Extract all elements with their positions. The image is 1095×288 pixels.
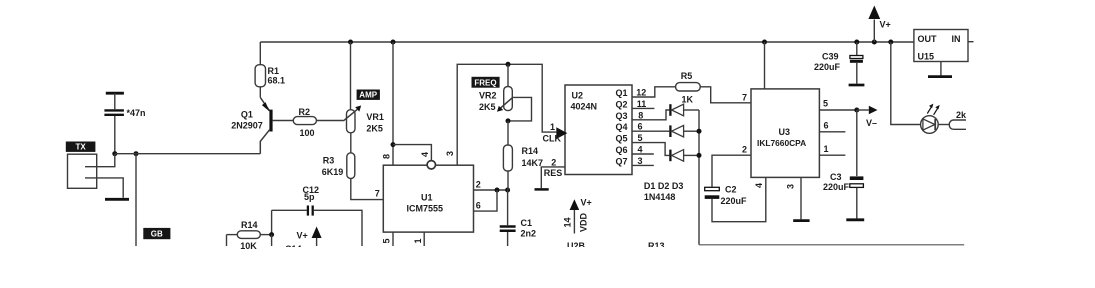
svg-text:10K: 10K — [240, 241, 257, 251]
svg-text:2n2: 2n2 — [521, 229, 537, 239]
svg-text:6: 6 — [476, 201, 481, 211]
svg-text:3: 3 — [445, 151, 455, 156]
svg-text:U3: U3 — [779, 127, 791, 137]
wire U3 top pin to rail — [764, 42, 766, 89]
svg-text:2K5: 2K5 — [479, 102, 496, 112]
svg-text:3: 3 — [785, 184, 795, 189]
resistor R1 68.1 — [255, 42, 285, 97]
label TX — [66, 142, 96, 152]
wire C2 to U3 pin 4 — [712, 177, 766, 221]
node D3 junction — [697, 153, 702, 158]
wire R14 node down (cut) — [271, 235, 273, 246]
wire VR2 to R14 — [507, 121, 509, 145]
node junction U3 top on rail — [762, 40, 767, 45]
node junction LED branch on rail — [888, 40, 893, 45]
wire V+ top rail — [260, 41, 914, 43]
svg-text:R14: R14 — [241, 220, 258, 230]
resistor R14 14K7 — [503, 145, 543, 190]
svg-text:7: 7 — [742, 92, 747, 102]
svg-text:R14: R14 — [522, 146, 539, 156]
svg-text:2: 2 — [551, 157, 556, 167]
svg-text:4: 4 — [754, 183, 764, 188]
wire transducer bottom plate to ground — [85, 178, 123, 198]
ground bar C39 — [849, 84, 865, 87]
svg-text:7: 7 — [375, 189, 380, 199]
svg-text:6: 6 — [638, 122, 643, 132]
svg-text:IKL7660CPA: IKL7660CPA — [757, 138, 806, 148]
svg-text:ICM7555: ICM7555 — [407, 204, 444, 214]
wire Q1 base to R2 — [273, 120, 294, 122]
wire U15 IN stub — [968, 41, 974, 43]
power flag V+ (near C12) — [297, 227, 322, 247]
svg-text:4: 4 — [420, 152, 430, 157]
svg-text:V+: V+ — [880, 20, 891, 30]
svg-text:C3: C3 — [830, 172, 842, 182]
label GB — [143, 228, 170, 239]
wire U2 Q4 to D2 — [632, 130, 669, 132]
svg-text:IN: IN — [952, 34, 961, 44]
ground bar U15 — [928, 75, 952, 78]
svg-text:C1: C1 — [521, 218, 533, 228]
svg-text:U15: U15 — [918, 51, 935, 61]
wire U1 pin 4 tie — [393, 145, 431, 161]
node pin5/C3 junction — [854, 108, 859, 113]
svg-text:1N4148: 1N4148 — [644, 192, 676, 202]
svg-text:V+: V+ — [581, 198, 592, 208]
svg-text:RES: RES — [544, 168, 563, 178]
svg-text:6: 6 — [824, 120, 829, 130]
resistor 2k (cut at edge) — [949, 120, 973, 129]
LED D? — [921, 104, 950, 134]
power flag V- arrow — [857, 106, 878, 128]
svg-text:VR2: VR2 — [479, 91, 497, 101]
svg-text:11: 11 — [637, 99, 647, 109]
capacitor C12 5p — [272, 185, 362, 246]
power flag V+ VDD pin14 U2 — [563, 198, 592, 234]
svg-text:R3: R3 — [323, 156, 335, 166]
node TX junction A — [112, 151, 117, 156]
svg-text:Q4: Q4 — [615, 122, 627, 132]
terminal bar above C47n — [106, 92, 124, 95]
pin bubble U1 pin4 — [427, 161, 435, 169]
wire rail to LED — [891, 42, 921, 125]
svg-text:2K5: 2K5 — [366, 124, 383, 134]
transistor Q1 2N2907 — [231, 97, 272, 153]
svg-text:*47n: *47n — [127, 108, 146, 118]
capacitor C3 220uF — [823, 110, 863, 218]
svg-text:AMP: AMP — [359, 91, 377, 100]
svg-text:8: 8 — [382, 154, 392, 159]
svg-text:Q5: Q5 — [615, 134, 627, 144]
capacitor C39 220uF — [814, 42, 863, 84]
wire C12 left down to R14 node — [271, 210, 273, 234]
diode D3 — [670, 150, 699, 162]
wire U1 pin 3 to U2 CLK — [457, 64, 556, 165]
svg-text:U1: U1 — [421, 193, 433, 203]
resistor R14 10K — [227, 220, 272, 251]
node VR2 loop junction — [506, 118, 511, 123]
svg-text:1: 1 — [824, 144, 829, 154]
counter U2 4024N box — [565, 85, 632, 175]
svg-text:D1 D2 D3: D1 D2 D3 — [644, 181, 684, 191]
svg-text:5: 5 — [823, 99, 828, 109]
potentiometer VR2 2K5 — [479, 64, 513, 112]
wire U1 pin 6 up to pin 2 — [474, 190, 498, 211]
potentiometer VR1 2K5 — [343, 42, 384, 153]
ground bar C3 — [846, 218, 864, 221]
wire C47n to TX node — [114, 116, 116, 154]
svg-text:V+: V+ — [297, 231, 308, 241]
partial cut text marks — [285, 244, 302, 254]
svg-text:220uF: 220uF — [721, 196, 748, 206]
node pin2/C1 junction — [505, 188, 510, 193]
resistor R2 100 — [293, 107, 343, 138]
svg-text:OUT: OUT — [918, 34, 938, 44]
svg-text:Q1: Q1 — [615, 88, 627, 98]
resistor R5 1K — [676, 71, 701, 105]
diode D1 — [670, 104, 699, 116]
svg-text:R2: R2 — [299, 107, 311, 117]
svg-text:U2: U2 — [572, 90, 584, 100]
svg-text:8: 8 — [638, 110, 643, 120]
wire bar to C47n — [114, 93, 116, 109]
wire U2 Q6 stub — [632, 153, 654, 155]
svg-text:12: 12 — [636, 88, 646, 98]
wire U3 pin 6 stub — [819, 131, 845, 133]
svg-text:14K7: 14K7 — [522, 158, 544, 168]
node VR2 tap on pin3 wire — [506, 62, 511, 67]
svg-text:C14: C14 — [285, 244, 302, 254]
wire U1 pin 5 down — [392, 232, 394, 246]
wire U2 Q1 to R5 — [632, 87, 676, 97]
label AMP — [357, 90, 380, 100]
svg-text:R13: R13 — [648, 241, 665, 251]
wire R14 left down (cut) — [226, 235, 228, 246]
svg-text:68.1: 68.1 — [268, 76, 286, 86]
svg-text:4: 4 — [638, 145, 643, 155]
wire U3 pin 2 to C2 — [712, 155, 751, 187]
svg-text:2k: 2k — [956, 110, 967, 120]
wire bottom rail (cut) — [699, 244, 964, 246]
svg-text:GB: GB — [151, 230, 163, 239]
svg-text:6K19: 6K19 — [322, 167, 344, 177]
resistor R3 6K19 — [322, 153, 384, 200]
node junction VR1 top on rail — [348, 40, 353, 45]
partial label R13 (cut) — [648, 241, 665, 251]
op-amp U1 ICM7555 box — [383, 165, 473, 232]
svg-text:1K: 1K — [682, 95, 694, 105]
node junction C39 on rail — [854, 40, 859, 45]
clock wedge U2 CLK — [556, 127, 567, 139]
svg-text:2: 2 — [476, 180, 481, 190]
node junction U1 pins 8/4 on rail — [391, 40, 396, 45]
svg-text:3: 3 — [638, 156, 643, 166]
converter U3 IKL7660CPA box — [751, 89, 819, 177]
regulator U15 OUT/IN box — [914, 30, 968, 62]
wire VR2 wiper loop — [508, 97, 532, 121]
svg-text:VR1: VR1 — [366, 112, 384, 122]
wire U15 ground — [940, 62, 942, 76]
svg-text:220uF: 220uF — [814, 62, 841, 72]
wire U3 pin 1 stub — [819, 154, 845, 156]
svg-text:C2: C2 — [725, 185, 737, 195]
svg-text:220uF: 220uF — [823, 182, 850, 192]
svg-text:Q2: Q2 — [615, 99, 627, 109]
node D2 junction — [697, 129, 702, 134]
wire U2 RES to ground — [541, 167, 565, 188]
node pin2/pin6 junction — [495, 188, 500, 193]
svg-text:Q7: Q7 — [615, 156, 627, 166]
node TX junction B — [134, 151, 139, 156]
svg-text:FREQ: FREQ — [474, 78, 496, 87]
capacitor C1 2n2 — [500, 190, 536, 246]
svg-text:CLK: CLK — [543, 134, 562, 144]
wire R5 to U3 pin 7 — [700, 87, 751, 103]
svg-text:5: 5 — [382, 238, 392, 243]
svg-text:TX: TX — [75, 143, 86, 152]
svg-text:R1: R1 — [268, 66, 280, 76]
wire TX node to Q1 collector — [115, 153, 260, 155]
svg-text:V–: V– — [866, 118, 877, 128]
svg-text:Q6: Q6 — [615, 145, 627, 155]
wire diode rail down to bottom rail — [698, 110, 700, 245]
wire TX node down (cut at bottom) — [135, 154, 137, 246]
ground bar under transducer — [105, 198, 129, 201]
diode D2 — [670, 125, 699, 137]
ground bar RES — [535, 188, 549, 191]
svg-text:2N2907: 2N2907 — [231, 121, 263, 131]
svg-text:U2B: U2B — [567, 241, 586, 251]
wire U2 Q3 to D1 — [632, 110, 669, 120]
node R14/C12 junction — [269, 232, 274, 237]
svg-text:4024N: 4024N — [571, 101, 598, 111]
partial label U2B (cut) — [567, 241, 586, 251]
svg-text:VDD: VDD — [579, 212, 589, 232]
wire U2 Q2 stub — [632, 107, 654, 109]
svg-text:1: 1 — [550, 122, 555, 132]
svg-text:Q3: Q3 — [615, 111, 627, 121]
capacitor *47n — [104, 108, 145, 118]
label FREQ — [472, 77, 500, 88]
wire U1 pin 2 — [474, 189, 508, 191]
wire transducer top plate to node A — [85, 154, 115, 167]
power flag V+ (top right) — [868, 6, 890, 43]
svg-text:1: 1 — [413, 238, 423, 243]
wire U3 pin 5 to V- node — [819, 109, 856, 111]
svg-text:5: 5 — [638, 133, 643, 143]
capacitor C2 220uF — [705, 185, 747, 206]
svg-text:R5: R5 — [681, 71, 693, 81]
svg-text:14: 14 — [563, 217, 573, 227]
wire U2 Q7 stub — [632, 164, 654, 166]
svg-text:100: 100 — [300, 128, 315, 138]
transducer TX body — [68, 154, 97, 188]
svg-text:2: 2 — [742, 145, 747, 155]
wire U2 Q5 to D3 — [632, 143, 669, 156]
node junction V+ flag on rail — [872, 40, 877, 45]
wire U1 pin 8 to rail — [392, 42, 394, 165]
svg-text:Q1: Q1 — [241, 109, 253, 119]
wire U3 pin 3 to ground — [800, 177, 802, 219]
wire U1 pin 1 down — [423, 232, 425, 246]
svg-text:C39: C39 — [822, 52, 839, 62]
svg-text:5p: 5p — [304, 192, 315, 202]
ground bar pin 3 — [793, 219, 809, 222]
node U1 pin8/pin4 junction — [391, 142, 396, 147]
